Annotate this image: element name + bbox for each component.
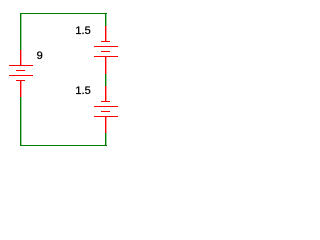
battery V1 (left, 9 V) <box>9 50 33 97</box>
wire right lower <box>105 133 107 146</box>
wire top (node 1) <box>20 13 107 14</box>
svg-text:1.5: 1.5 <box>75 85 90 97</box>
battery V2 (right top, 1.5 V) <box>94 26 118 74</box>
wire left lower <box>20 97 22 146</box>
battery V3 (right bottom, 1.5 V) <box>94 86 118 133</box>
wire right middle <box>105 74 107 86</box>
svg-text:1.5: 1.5 <box>75 25 90 37</box>
wire right upper <box>105 13 107 26</box>
wire bottom (node 2) <box>20 145 107 146</box>
svg-text:9: 9 <box>37 50 43 62</box>
wire left upper <box>20 13 22 50</box>
